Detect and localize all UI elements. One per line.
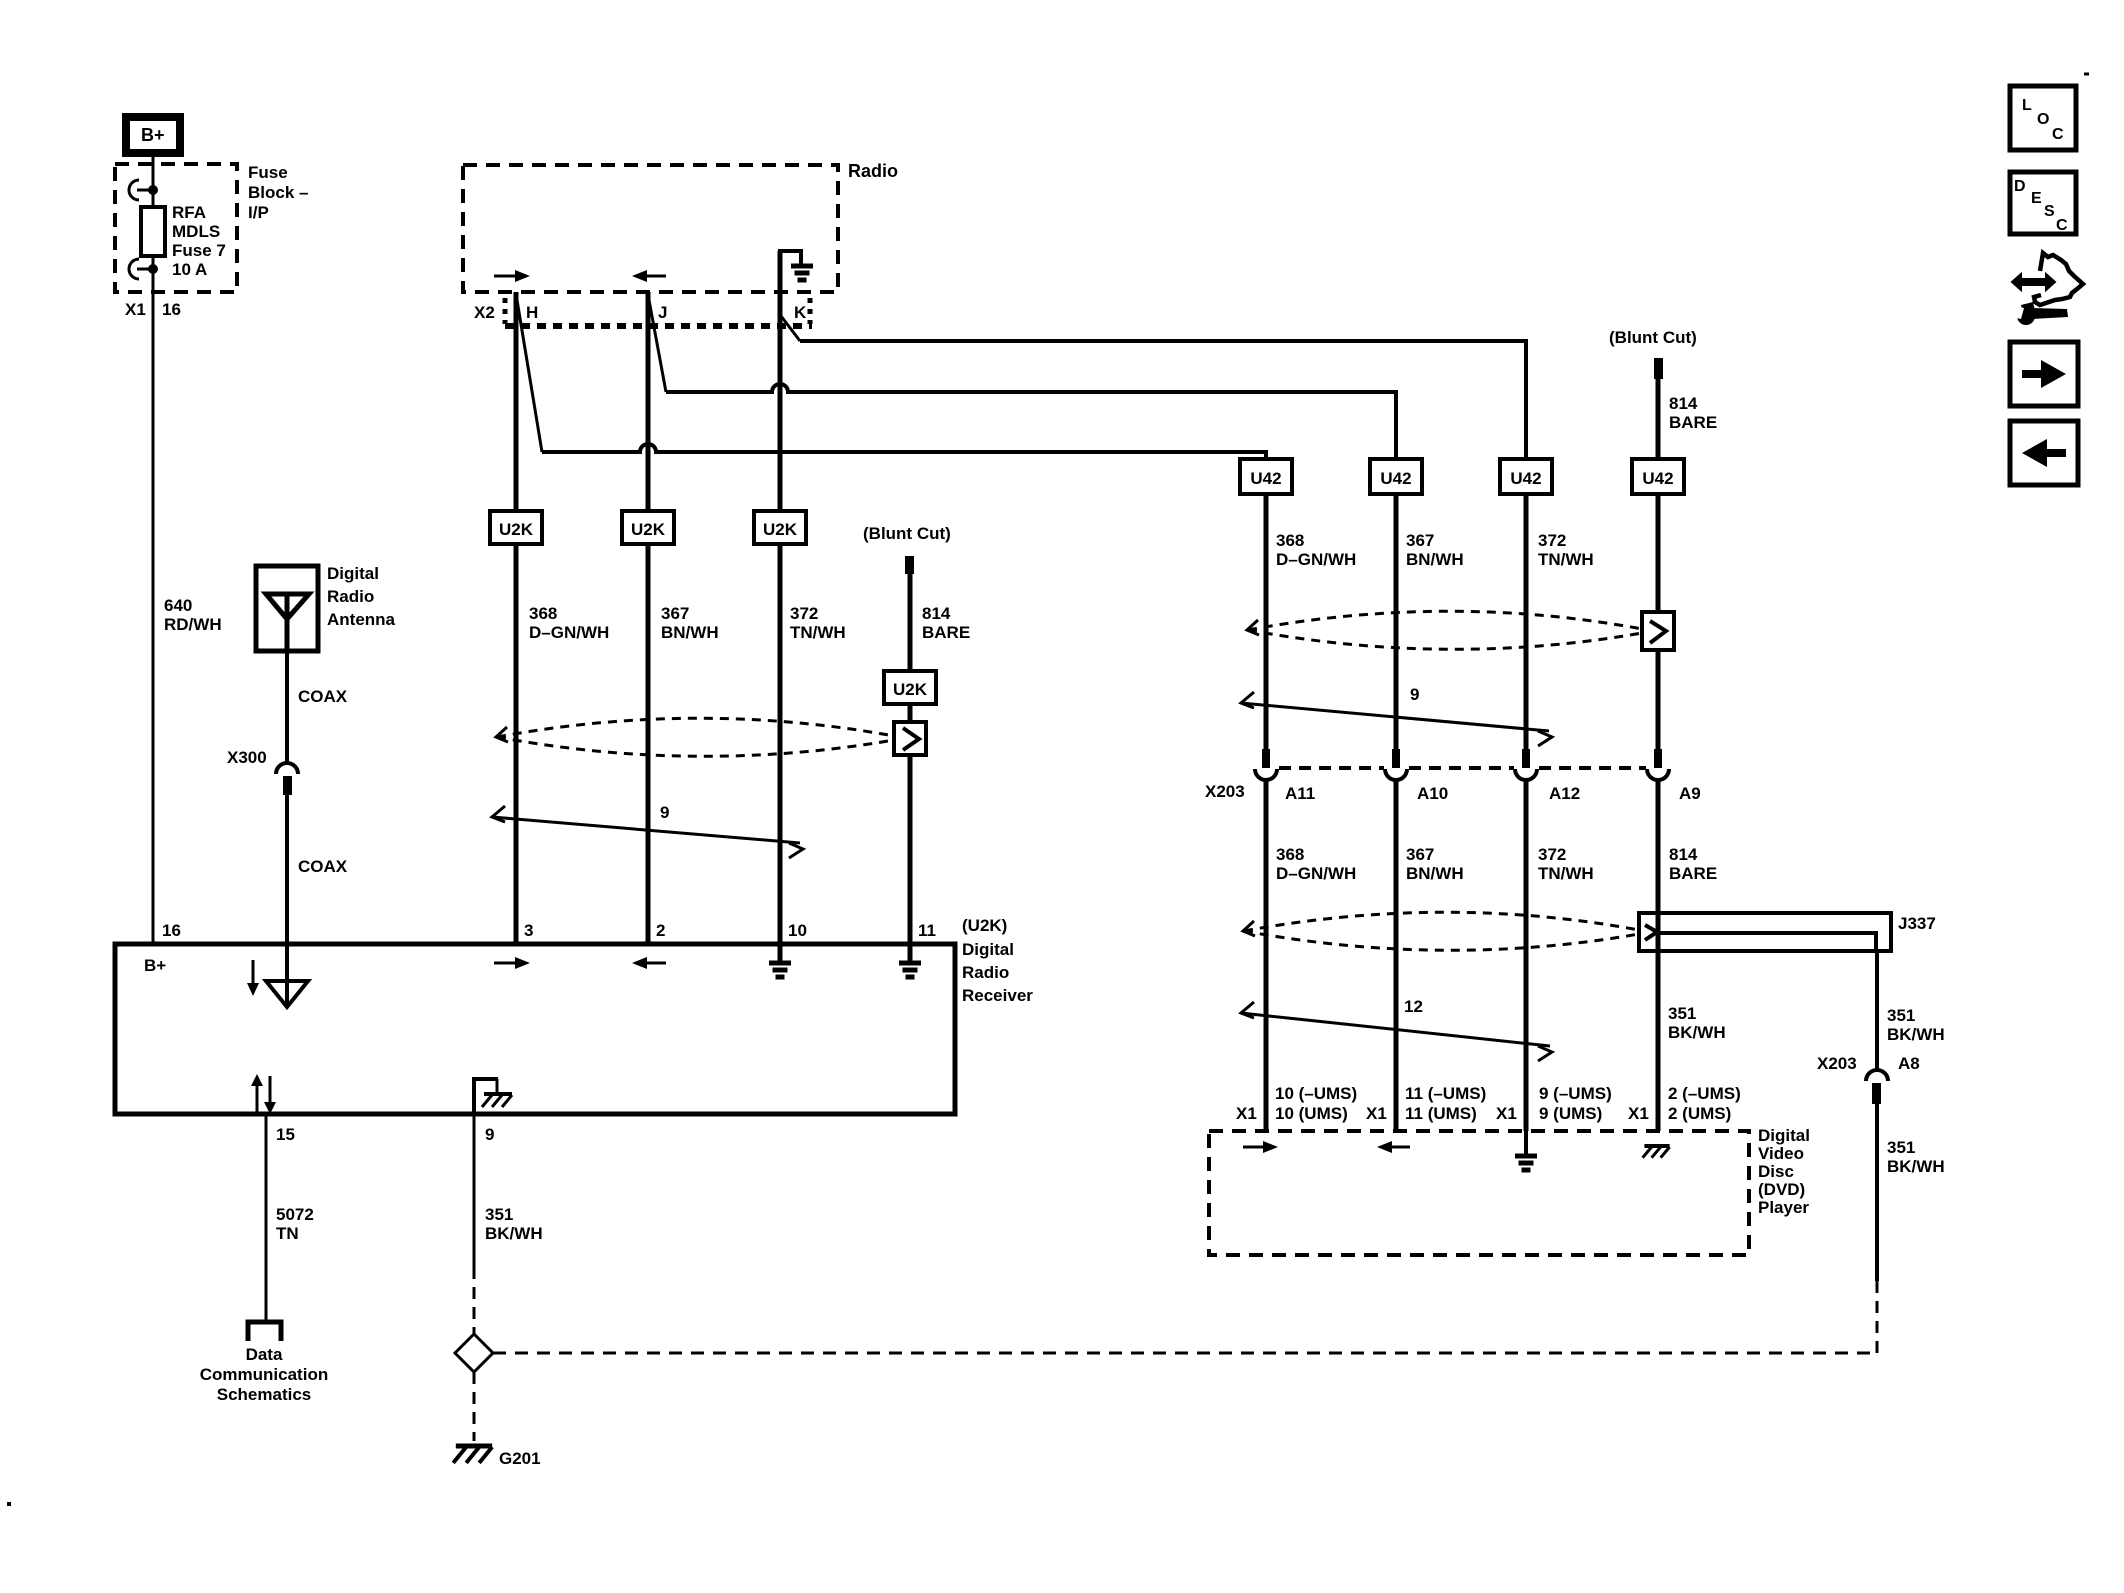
twisted pair tip arrow right lower — [1243, 921, 1255, 936]
svg-text:(DVD): (DVD) — [1758, 1180, 1805, 1199]
twist count line right lower — [1241, 1002, 1552, 1061]
label 367 BN/WH left — [661, 604, 719, 642]
wire branch J to bus 367 — [649, 300, 666, 392]
arrow right under pin 3 — [494, 957, 530, 969]
wire K vertical 372 TN/WH — [778, 292, 783, 946]
svg-text:372: 372 — [1538, 531, 1566, 550]
blunt cut terminal left — [905, 556, 914, 574]
pin labels X1 2 UMS — [1628, 1084, 1741, 1123]
svg-text:(U2K): (U2K) — [962, 916, 1007, 935]
twisted pair ellipse left — [497, 718, 894, 756]
terminal hook top — [129, 180, 153, 200]
junction dot bottom — [148, 264, 158, 274]
label 814 BARE right lower — [1669, 845, 1717, 883]
arrow out pin H inside radio — [494, 270, 530, 282]
label 367 BN/WH right upper — [1406, 531, 1464, 569]
svg-text:U42: U42 — [1642, 469, 1673, 488]
radio dashed box — [463, 165, 838, 292]
label 351 BK/WH under J337 — [1668, 1004, 1726, 1042]
svg-text:814: 814 — [922, 604, 951, 623]
receiver name label — [962, 916, 1033, 1005]
connector X203 inline at x=1526 — [1515, 749, 1537, 780]
option box U2K at x=780 — [754, 511, 806, 544]
svg-text:9 (–UMS): 9 (–UMS) — [1539, 1084, 1612, 1103]
arrow left under pin 2 — [632, 957, 666, 969]
svg-text:RD/WH: RD/WH — [164, 615, 222, 634]
svg-text:9: 9 — [485, 1125, 494, 1144]
label 814 BARE left — [922, 604, 970, 642]
wire 351 BK/WH right upper — [1875, 951, 1879, 1069]
svg-text:372: 372 — [790, 604, 818, 623]
option box U2K at x=648 — [622, 511, 674, 544]
label 5072 TN — [276, 1205, 314, 1243]
svg-text:Digital: Digital — [327, 564, 379, 583]
coax wire upper — [285, 651, 289, 765]
svg-text:U2K: U2K — [893, 680, 928, 699]
label 814 BARE right — [1669, 394, 1717, 432]
connector X2 left boundary — [503, 298, 508, 303]
wire A10 upper — [1394, 494, 1399, 750]
option box U2K at x=516 — [490, 511, 542, 544]
wire 351 BK/WH solid — [473, 1114, 476, 1267]
svg-text:2: 2 — [656, 921, 665, 940]
dashed wire splice to right — [493, 1352, 1877, 1355]
svg-text:H: H — [526, 303, 538, 322]
svg-text:BN/WH: BN/WH — [661, 623, 719, 642]
svg-text:O: O — [2037, 111, 2049, 128]
svg-text:Disc: Disc — [1758, 1162, 1794, 1181]
connector X203 inline at x=1396 — [1385, 749, 1407, 780]
connector X2 dotted body — [505, 323, 812, 329]
svg-text:B+: B+ — [141, 125, 165, 145]
arrow down inside receiver — [247, 960, 259, 996]
arrow in pin J inside radio — [632, 270, 666, 282]
icon arrow left — [2010, 421, 2078, 485]
svg-text:Radio: Radio — [962, 963, 1009, 982]
svg-text:BARE: BARE — [1669, 864, 1717, 883]
svg-text:U2K: U2K — [763, 520, 798, 539]
svg-text:RFA: RFA — [172, 203, 206, 222]
svg-text:Video: Video — [1758, 1144, 1804, 1163]
wire bus 367 to U42 A10 with hop at K — [666, 384, 1396, 459]
svg-text:X300: X300 — [227, 748, 267, 767]
svg-text:E: E — [2031, 190, 2042, 207]
svg-text:10 A: 10 A — [172, 260, 207, 279]
svg-text:Fuse 7: Fuse 7 — [172, 241, 226, 260]
twist count line left — [492, 806, 803, 858]
wire 814 BARE right upper — [1656, 379, 1661, 750]
wire branch K to bus 372 — [781, 316, 800, 341]
svg-text:814: 814 — [1669, 394, 1698, 413]
svg-text:16: 16 — [162, 300, 181, 319]
svg-text:Data: Data — [246, 1345, 283, 1364]
svg-text:11 (UMS): 11 (UMS) — [1405, 1104, 1477, 1123]
svg-text:S: S — [2044, 203, 2055, 220]
svg-text:351: 351 — [1668, 1004, 1696, 1023]
svg-text:U42: U42 — [1510, 469, 1541, 488]
splice pack J337 — [1639, 913, 1891, 951]
svg-text:U42: U42 — [1250, 469, 1281, 488]
twist count line right upper — [1241, 692, 1552, 746]
svg-text:640: 640 — [164, 596, 192, 615]
label 372 TN/WH left — [790, 604, 846, 642]
wire branch H to bus 368 — [517, 300, 542, 452]
twisted pair ellipse right upper — [1248, 611, 1642, 649]
wire 5072 TN — [265, 1114, 268, 1320]
ground under pin 10 — [769, 946, 791, 977]
svg-text:9: 9 — [1410, 685, 1419, 704]
svg-text:9: 9 — [660, 803, 669, 822]
connector X203 A8 — [1866, 1070, 1888, 1104]
svg-text:351: 351 — [485, 1205, 513, 1224]
label 368 D-GN/WH left — [529, 604, 609, 642]
option box U42 at x=1266 — [1240, 459, 1292, 494]
svg-text:Player: Player — [1758, 1198, 1809, 1217]
svg-text:BK/WH: BK/WH — [485, 1224, 543, 1243]
wire A11 upper — [1264, 494, 1269, 750]
icon LOC — [2010, 86, 2076, 150]
arrow right inside dvd — [1243, 1141, 1278, 1153]
label 367 BN/WH right lower — [1406, 845, 1464, 883]
svg-text:COAX: COAX — [298, 687, 348, 706]
connector X2 right boundary — [808, 298, 813, 303]
terminal hook bottom — [129, 259, 153, 279]
icon DESC — [2010, 172, 2076, 234]
svg-text:BN/WH: BN/WH — [1406, 550, 1464, 569]
svg-text:368: 368 — [1276, 845, 1304, 864]
label data communication schematics — [200, 1345, 328, 1404]
svg-text:C: C — [2052, 126, 2064, 143]
svg-text:BARE: BARE — [1669, 413, 1717, 432]
svg-text:Antenna: Antenna — [327, 610, 396, 629]
svg-text:A9: A9 — [1679, 784, 1701, 803]
svg-text:10 (UMS): 10 (UMS) — [1275, 1104, 1348, 1123]
antenna symbol — [266, 594, 309, 651]
svg-text:L: L — [2022, 97, 2032, 114]
svg-text:372: 372 — [1538, 845, 1566, 864]
page tick top right — [2084, 73, 2089, 76]
label 351 BK/WH bottom left — [485, 1205, 543, 1243]
wire fuse to dot — [152, 256, 155, 269]
connector X300 — [276, 763, 298, 795]
label 372 TN/WH right upper — [1538, 531, 1594, 569]
wire A12 upper — [1524, 494, 1529, 750]
svg-text:11: 11 — [918, 921, 936, 940]
svg-text:16: 16 — [162, 921, 181, 940]
svg-text:Digital: Digital — [1758, 1126, 1810, 1145]
svg-text:D–GN/WH: D–GN/WH — [1276, 550, 1356, 569]
wire 351 BK/WH right lower solid — [1875, 1104, 1879, 1281]
svg-text:TN/WH: TN/WH — [1538, 864, 1594, 883]
dashed wire 351 to splice line — [1876, 1281, 1879, 1353]
svg-text:X1: X1 — [1236, 1104, 1257, 1123]
svg-text:BK/WH: BK/WH — [1887, 1025, 1945, 1044]
power symbol B+ — [126, 117, 180, 153]
connector X203 inline at x=1658 — [1647, 749, 1669, 780]
wire A10 lower — [1394, 780, 1399, 1131]
svg-text:Receiver: Receiver — [962, 986, 1033, 1005]
wire 351 dashed to splice — [473, 1267, 476, 1334]
icon wiring/wrench — [2007, 253, 2083, 325]
svg-text:(Blunt Cut): (Blunt Cut) — [1609, 328, 1697, 347]
svg-text:U2K: U2K — [499, 520, 534, 539]
svg-text:TN/WH: TN/WH — [1538, 550, 1594, 569]
chassis ground inside dvd pin 2 — [1644, 1144, 1669, 1148]
drain splice box left — [894, 722, 926, 755]
svg-text:G201: G201 — [499, 1449, 541, 1468]
svg-text:A10: A10 — [1417, 784, 1448, 803]
wire dot to fuse — [152, 190, 155, 208]
pin labels X1 9 UMS — [1496, 1084, 1612, 1123]
ground symbol inside radio at pin K — [778, 251, 813, 292]
label 372 TN/WH right lower — [1538, 845, 1594, 883]
coax wire lower — [285, 795, 289, 946]
svg-text:X1: X1 — [1366, 1104, 1387, 1123]
ground under pin 11 — [899, 946, 921, 977]
svg-text:U2K: U2K — [631, 520, 666, 539]
drain splice box right upper — [1642, 612, 1674, 650]
wire bus 372 to U42 A12 — [800, 341, 1526, 459]
icon arrow right — [2010, 342, 2078, 406]
svg-text:BARE: BARE — [922, 623, 970, 642]
svg-text:Schematics: Schematics — [217, 1385, 312, 1404]
ground inside dvd pin 9 — [1515, 1131, 1537, 1170]
svg-text:X1: X1 — [1628, 1104, 1649, 1123]
svg-text:J: J — [658, 303, 667, 322]
fuse value label — [172, 203, 226, 279]
svg-text:2 (UMS): 2 (UMS) — [1668, 1104, 1731, 1123]
svg-text:D–GN/WH: D–GN/WH — [1276, 864, 1356, 883]
svg-text:Fuse: Fuse — [248, 163, 288, 182]
svg-text:A8: A8 — [1898, 1054, 1920, 1073]
svg-text:367: 367 — [1406, 531, 1434, 550]
digital radio antenna box — [256, 566, 318, 651]
svg-text:Radio: Radio — [848, 161, 898, 181]
svg-text:MDLS: MDLS — [172, 222, 220, 241]
digital radio receiver box — [115, 944, 955, 1114]
svg-text:D: D — [2014, 178, 2026, 195]
svg-text:A12: A12 — [1549, 784, 1580, 803]
arrows up/down near pin 15 — [251, 1074, 276, 1114]
blunt cut terminal right — [1654, 358, 1663, 379]
option box U42 at x=1658 — [1632, 459, 1684, 494]
svg-text:X1: X1 — [125, 300, 146, 319]
svg-text:Block –: Block – — [248, 183, 308, 202]
wire 814 BARE left — [908, 574, 913, 946]
twisted pair tip arrow right upper — [1247, 620, 1259, 635]
svg-text:11 (–UMS): 11 (–UMS) — [1405, 1084, 1486, 1103]
wire A9 lower — [1656, 780, 1661, 1131]
svg-text:I/P: I/P — [248, 203, 269, 222]
twisted pair tip arrow left — [496, 727, 508, 742]
wire A11 lower — [1264, 780, 1269, 1131]
dashed wire splice to ground — [473, 1372, 476, 1441]
option box U42 at x=1396 — [1370, 459, 1422, 494]
wire H vertical 368 D-GN/WH — [514, 292, 519, 946]
twisted pair ellipse right lower — [1244, 912, 1639, 950]
svg-text:X203: X203 — [1205, 782, 1245, 801]
svg-text:351: 351 — [1887, 1006, 1915, 1025]
label 351 BK/WH far right — [1887, 1138, 1945, 1176]
svg-text:367: 367 — [661, 604, 689, 623]
label 640 RD/WH — [164, 596, 222, 634]
svg-text:10: 10 — [788, 921, 807, 940]
wire B+ to fuse block — [152, 153, 155, 190]
connector X1 pin 16 labels — [125, 300, 181, 319]
svg-text:Radio: Radio — [327, 587, 374, 606]
arrow left inside dvd — [1377, 1141, 1410, 1153]
label 351 BK/WH right of J337 — [1887, 1006, 1945, 1044]
svg-text:X2: X2 — [474, 303, 495, 322]
svg-text:TN: TN — [276, 1224, 299, 1243]
svg-text:368: 368 — [1276, 531, 1304, 550]
svg-text:10 (–UMS): 10 (–UMS) — [1275, 1084, 1357, 1103]
wire 640 RD/WH circuit — [152, 269, 155, 946]
chassis stub near pin 9 — [472, 1077, 512, 1112]
svg-text:BN/WH: BN/WH — [1406, 864, 1464, 883]
svg-text:(Blunt Cut): (Blunt Cut) — [863, 524, 951, 543]
label 368 D-GN/WH right upper — [1276, 531, 1356, 569]
svg-text:5072: 5072 — [276, 1205, 314, 1224]
svg-text:15: 15 — [276, 1125, 295, 1144]
wire A12 lower — [1524, 780, 1529, 1131]
svg-text:368: 368 — [529, 604, 557, 623]
svg-text:BK/WH: BK/WH — [1887, 1157, 1945, 1176]
option box U42 at x=1526 — [1500, 459, 1552, 494]
ground G201 — [456, 1444, 492, 1449]
svg-text:9 (UMS): 9 (UMS) — [1539, 1104, 1602, 1123]
off-page connector — [248, 1322, 281, 1341]
svg-text:Digital: Digital — [962, 940, 1014, 959]
svg-text:12: 12 — [1404, 997, 1423, 1016]
svg-text:351: 351 — [1887, 1138, 1915, 1157]
svg-text:2 (–UMS): 2 (–UMS) — [1668, 1084, 1741, 1103]
svg-text:X203: X203 — [1817, 1054, 1857, 1073]
dvd player label — [1758, 1126, 1810, 1217]
connector X203 dashed body — [1279, 766, 1646, 770]
svg-text:3: 3 — [524, 921, 533, 940]
junction dot top — [148, 185, 158, 195]
svg-text:BK/WH: BK/WH — [1668, 1023, 1726, 1042]
fuse block I/P dashed box — [115, 164, 237, 292]
svg-text:K: K — [794, 303, 807, 322]
svg-text:A11: A11 — [1285, 784, 1315, 803]
fuse RFA MDLS Fuse 7 10 A — [141, 207, 165, 256]
label 368 D-GN/WH right lower — [1276, 845, 1356, 883]
fuse block label — [248, 163, 308, 222]
svg-text:COAX: COAX — [298, 857, 348, 876]
svg-text:C: C — [2056, 217, 2068, 234]
pin labels X1 11 UMS — [1366, 1084, 1486, 1123]
svg-text:J337: J337 — [1898, 914, 1936, 933]
svg-text:D–GN/WH: D–GN/WH — [529, 623, 609, 642]
svg-text:Communication: Communication — [200, 1365, 328, 1384]
svg-text:X1: X1 — [1496, 1104, 1517, 1123]
splice diamond — [455, 1334, 493, 1372]
antenna label — [327, 564, 396, 629]
dvd player dashed box — [1209, 1131, 1749, 1255]
page dot bottom left — [7, 1502, 11, 1506]
wire bus 368 to U42 A11 with hop at J — [542, 444, 1266, 459]
antenna symbol inside receiver — [266, 946, 308, 1007]
connector X203 inline at x=1266 — [1255, 749, 1277, 780]
svg-text:367: 367 — [1406, 845, 1434, 864]
wire J vertical 367 BN/WH — [646, 292, 651, 946]
svg-text:TN/WH: TN/WH — [790, 623, 846, 642]
svg-text:814: 814 — [1669, 845, 1698, 864]
svg-text:B+: B+ — [144, 956, 166, 975]
pin labels X1 10 UMS — [1236, 1084, 1357, 1123]
svg-text:U42: U42 — [1380, 469, 1411, 488]
option box U2K on 814 — [884, 671, 936, 704]
